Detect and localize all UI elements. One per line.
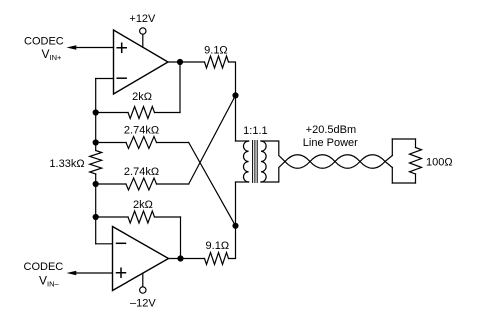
label VIN- <box>39 274 60 289</box>
svg-text:9.1Ω: 9.1Ω <box>204 44 228 56</box>
wire feedback to R 2k top <box>155 112 181 114</box>
label 1.33k ohm <box>49 158 84 170</box>
arrowhead to CODEC VIN+ <box>67 45 77 50</box>
label +12V <box>129 13 156 25</box>
svg-text:CODEC: CODEC <box>24 36 64 48</box>
op-amp U2 (bottom) triangle <box>113 227 169 291</box>
wire U1 output to R 9.1 top <box>168 61 205 63</box>
label VIN+ <box>42 47 63 62</box>
power +12V pin circle <box>140 28 146 34</box>
svg-text:–12V: –12V <box>130 297 156 309</box>
op-amp U2 inverting input marker - <box>117 242 126 244</box>
wire R 9.1 top to right rail <box>229 62 236 141</box>
resistor 2k ohm (bottom feedback) <box>128 211 155 223</box>
junction node U1 output <box>177 59 183 65</box>
wire load bracket top <box>392 138 415 140</box>
wire U1 + input <box>76 47 114 49</box>
resistor 9.1 ohm (bottom) <box>205 253 229 265</box>
resistor 2.74k ohm (upper) <box>126 137 157 149</box>
label 9.1 ohm (bottom) <box>206 240 230 252</box>
svg-text:2kΩ: 2kΩ <box>133 199 153 211</box>
twisted pair wire A <box>285 155 392 169</box>
twisted pair wire B <box>285 155 392 169</box>
label -12V <box>130 297 156 309</box>
wire transformer secondary top lead <box>261 141 285 162</box>
junction node left rail / 2k bottom <box>93 214 99 220</box>
resistor 100 ohm (vertical) <box>410 148 422 175</box>
label Line Power <box>303 137 358 149</box>
junction node left rail / 2k top <box>93 109 99 115</box>
svg-text:1:1.1: 1:1.1 <box>243 125 267 137</box>
junction node bottom right <box>232 223 238 229</box>
wire U1 inverting node vertical <box>95 79 97 113</box>
wire -12V pin to U2 bottom edge <box>142 273 144 287</box>
junction node top right <box>232 92 238 98</box>
svg-text:Line Power: Line Power <box>303 137 358 149</box>
wire U2 output to R 9.1 bottom <box>169 258 205 260</box>
label 1:1.1 transformer ratio <box>243 125 267 137</box>
wire load bracket bottom <box>392 182 415 184</box>
svg-text:+20.5dBm: +20.5dBm <box>306 124 356 136</box>
svg-text:+12V: +12V <box>129 13 156 25</box>
svg-text:VIN+: VIN+ <box>42 47 63 62</box>
wire left rail to U2 inverting node <box>95 217 97 244</box>
wire crossover diagonal lower-to-upper <box>189 95 236 184</box>
resistor 2.74k ohm (lower) <box>126 178 157 190</box>
svg-text:2.74kΩ: 2.74kΩ <box>124 125 159 137</box>
label 2k ohm (top) <box>132 91 152 103</box>
label CODEC (top) <box>24 36 64 48</box>
wire R 2k bottom to left rail <box>96 216 128 218</box>
resistor 2k ohm (top feedback) <box>128 107 155 119</box>
junction node left rail / 2.74k lower <box>93 181 99 187</box>
transformer T1 core lines <box>253 141 258 183</box>
wire left rail lower segment <box>95 174 97 217</box>
op-amp U2 noninverting input marker + <box>117 268 126 277</box>
arrowhead to CODEC VIN- <box>67 271 77 276</box>
svg-text:9.1Ω: 9.1Ω <box>206 240 230 252</box>
svg-text:2kΩ: 2kΩ <box>132 91 152 103</box>
op-amp U1 (top) triangle <box>114 30 169 94</box>
wire transformer secondary bottom lead <box>261 162 285 183</box>
wire U2 + input <box>76 272 113 274</box>
power -12V pin circle <box>140 287 146 293</box>
svg-text:CODEC: CODEC <box>24 261 64 273</box>
op-amp U1 inverting input marker - <box>117 77 126 79</box>
wire U2 - input <box>96 243 113 245</box>
wire +12V pin to U1 top edge <box>142 34 144 47</box>
wire R 2.74k lower to crossover <box>157 183 189 185</box>
junction node U2 output <box>177 255 183 261</box>
svg-text:100Ω: 100Ω <box>426 156 453 168</box>
wire U1 - input <box>96 78 114 80</box>
wire R 9.1 bottom to right rail <box>229 182 236 259</box>
wire crossover diagonal upper-to-lower <box>189 143 236 226</box>
op-amp U1 noninverting input marker + <box>117 43 126 52</box>
wire U2 feedback vertical <box>180 217 182 259</box>
label 2.74k ohm (upper) <box>124 125 159 137</box>
label 100 ohm <box>426 156 453 168</box>
svg-text:1.33kΩ: 1.33kΩ <box>49 158 84 170</box>
resistor 100 ohm load leads <box>415 139 417 183</box>
wire to R 2.74k lower <box>96 183 126 185</box>
transformer T1 primary winding <box>243 141 248 182</box>
wire transformer primary bottom lead <box>236 181 249 183</box>
junction node left rail / 2.74k upper <box>93 139 99 145</box>
wire load bracket left side <box>391 139 393 183</box>
resistor 9.1 ohm (top) <box>205 56 229 68</box>
transformer T1 secondary winding <box>261 141 266 182</box>
resistor 1.33k ohm (vertical) <box>90 151 102 175</box>
wire U1 feedback vertical <box>179 62 181 113</box>
svg-text:VIN–: VIN– <box>39 274 60 289</box>
wire left rail upper segment <box>95 113 97 151</box>
wire R 2k top to left rail <box>96 112 128 114</box>
wire to R 2.74k upper <box>96 142 126 144</box>
svg-text:2.74kΩ: 2.74kΩ <box>124 166 159 178</box>
label 2k ohm (bottom) <box>133 199 153 211</box>
wire R 2.74k upper to crossover <box>157 142 189 144</box>
wire feedback to R 2k bottom <box>155 216 181 218</box>
label +20.5dBm <box>306 124 356 136</box>
label 2.74k ohm (lower) <box>124 166 159 178</box>
label CODEC (bottom) <box>24 261 64 273</box>
label 9.1 ohm (top) <box>204 44 228 56</box>
wire transformer primary top lead <box>236 140 249 142</box>
